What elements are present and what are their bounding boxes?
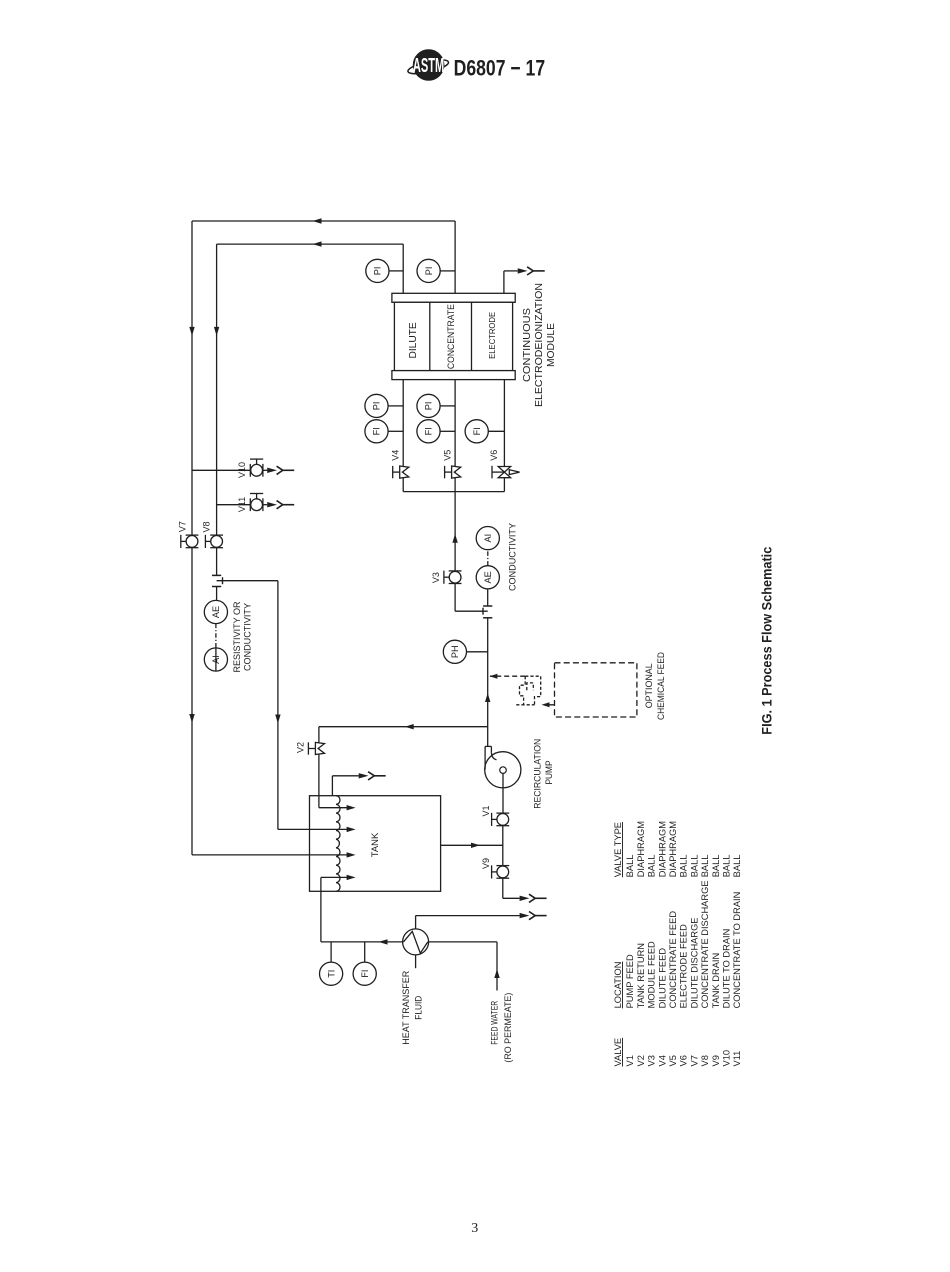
svg-text:PUMP FEED: PUMP FEED <box>625 954 635 1008</box>
svg-text:FI: FI <box>360 970 370 978</box>
svg-text:VALVE TYPE: VALVE TYPE <box>613 822 623 877</box>
flow arrow up riser <box>485 693 490 702</box>
svg-text:AE: AE <box>211 606 221 618</box>
wire heat transfer fluid inlet <box>415 955 417 968</box>
wire module feed elbow to riser <box>455 610 488 612</box>
svg-text:V1: V1 <box>625 1055 635 1066</box>
svg-text:DILUTE: DILUTE <box>408 322 419 358</box>
svg-text:V2: V2 <box>636 1055 646 1066</box>
svg-text:V11: V11 <box>237 497 247 512</box>
drain symbol after V10 <box>267 468 277 473</box>
flow arrow up module feed <box>452 534 457 543</box>
wire heated loop into tank with spray arrow <box>321 876 348 878</box>
valve V6 (ball with flow indicator) <box>492 466 520 479</box>
svg-text:BALL: BALL <box>679 855 689 878</box>
module bottom header bar <box>392 371 515 380</box>
svg-text:V3: V3 <box>431 572 441 583</box>
tank overflow to drain <box>331 776 333 796</box>
svg-text:CONCENTRATE FEED: CONCENTRATE FEED <box>668 911 678 1009</box>
instrument PI dilute bottom <box>388 405 403 407</box>
svg-text:FI: FI <box>372 427 382 435</box>
valve V1 (ball) <box>492 813 510 826</box>
svg-text:V7: V7 <box>178 521 188 532</box>
instrument PI dilute top <box>389 270 403 272</box>
wire concentrate bottom pipe <box>454 380 456 612</box>
flow arrow on V2 return <box>405 724 414 729</box>
wire branch return into tank with spray arrow <box>278 828 348 830</box>
flow arrow on inner return <box>313 241 322 246</box>
svg-text:ELECTRODE FEED: ELECTRODE FEED <box>679 924 689 1008</box>
svg-text:BALL: BALL <box>625 855 635 878</box>
svg-text:MODULE FEED: MODULE FEED <box>647 941 657 1008</box>
svg-text:PUMP: PUMP <box>544 761 554 785</box>
wire dilute return (inner) horizontal <box>217 243 404 245</box>
svg-text:V6: V6 <box>489 450 499 461</box>
valve V8 (ball) <box>205 535 223 548</box>
valve V7 (ball) <box>181 535 199 548</box>
svg-text:V3: V3 <box>647 1055 657 1066</box>
valve V3 (ball) <box>444 571 462 584</box>
instrument AI (resistivity, shared display) <box>204 648 227 671</box>
metering pump stepped outline (dashed) <box>516 676 541 705</box>
wire dilute bottom pipe <box>402 380 404 492</box>
wire V2 return branch <box>319 726 488 728</box>
svg-text:BALL: BALL <box>711 855 721 878</box>
svg-text:AI: AI <box>483 534 493 543</box>
svg-text:ELECTRODE: ELECTRODE <box>487 312 497 359</box>
svg-text:ELECTRODEIONIZATION: ELECTRODEIONIZATION <box>534 283 545 407</box>
wire electrode top pipe to drain <box>503 271 505 293</box>
wire electrode bottom pipe <box>503 380 505 492</box>
heat exchanger <box>403 929 429 955</box>
svg-text:DILUTE DISCHARGE: DILUTE DISCHARGE <box>689 917 699 1008</box>
svg-text:PI: PI <box>424 267 434 276</box>
svg-text:V9: V9 <box>711 1055 721 1066</box>
wire tank bottom to heat exchange line <box>320 891 322 942</box>
svg-text:V2: V2 <box>296 742 306 753</box>
wire V11 branch <box>217 504 251 506</box>
module body with three compartments <box>394 302 512 370</box>
svg-text:DIAPHRAGM: DIAPHRAGM <box>657 821 667 877</box>
wire feed water riser <box>496 942 498 991</box>
svg-text:V8: V8 <box>700 1055 710 1066</box>
svg-text:CONCENTRATE TO DRAIN: CONCENTRATE TO DRAIN <box>732 892 742 1009</box>
svg-text:TI: TI <box>326 970 336 978</box>
svg-text:(RO PERMEATE): (RO PERMEATE) <box>503 993 513 1063</box>
instrument PI concentrate top <box>440 270 455 272</box>
svg-text:RESISTIVITY OR: RESISTIVITY OR <box>232 601 242 672</box>
sample connection flanges on V8 line <box>212 574 221 576</box>
tank body <box>310 796 441 892</box>
signal dash-dot AE to AI <box>215 624 217 648</box>
svg-text:AI: AI <box>211 655 221 664</box>
instrument FI concentrate <box>440 430 455 432</box>
svg-text:CONCENTRATE: CONCENTRATE <box>446 304 456 369</box>
wire concentrate return (outer) horizontal <box>192 220 455 222</box>
svg-text:DILUTE TO DRAIN: DILUTE TO DRAIN <box>722 929 732 1009</box>
flow arrow feed water <box>494 969 499 978</box>
svg-text:FI: FI <box>472 427 482 435</box>
wire tank outlet <box>441 844 503 846</box>
ASTM logo (globe with orbit) <box>407 50 450 80</box>
svg-text:D6807 − 17: D6807 − 17 <box>454 57 545 81</box>
wire V10 branch <box>192 469 251 471</box>
flow arrow down on branch <box>275 715 280 724</box>
wire pump suction between valves <box>502 826 504 866</box>
svg-text:V4: V4 <box>391 450 401 461</box>
svg-text:3: 3 <box>471 1221 478 1236</box>
module top header bar <box>392 293 515 302</box>
svg-text:V1: V1 <box>481 805 491 816</box>
svg-text:PI: PI <box>372 402 382 411</box>
svg-text:TANK: TANK <box>370 832 380 857</box>
svg-text:CHEMICAL FEED: CHEMICAL FEED <box>656 652 666 720</box>
wire AE stub <box>216 587 218 601</box>
instrument AI (conductivity) <box>476 527 499 550</box>
svg-text:BALL: BALL <box>647 855 657 878</box>
svg-text:BALL: BALL <box>732 855 742 878</box>
wire V9 to drain <box>502 878 504 898</box>
svg-text:V5: V5 <box>442 450 452 461</box>
svg-text:LOCATION: LOCATION <box>613 962 623 1009</box>
svg-text:CONDUCTIVITY: CONDUCTIVITY <box>242 603 252 671</box>
valve V5 (diaphragm) <box>445 466 461 478</box>
svg-text:MODULE: MODULE <box>546 323 557 367</box>
instrument AE (resistivity) <box>204 600 227 623</box>
valve V10 (ball) <box>250 459 263 477</box>
valve V9 (ball) <box>492 865 510 878</box>
tank internal coil (wavy) <box>336 796 340 892</box>
svg-text:BALL: BALL <box>700 855 710 878</box>
wire branch vertical down to tank <box>277 581 279 830</box>
valve V2 (diaphragm) <box>308 742 324 754</box>
flow arrow down on V7 line (lower) <box>189 714 194 723</box>
wire outer return into tank with spray arrow <box>192 854 348 856</box>
wire outer return vertical to tank <box>191 221 193 855</box>
svg-text:CONDUCTIVITY: CONDUCTIVITY <box>507 523 517 591</box>
flow arrow on outer return <box>313 218 322 223</box>
svg-text:V7: V7 <box>689 1055 699 1066</box>
valve table <box>613 821 742 1067</box>
wire inner return vertical to sample point <box>216 244 218 575</box>
svg-text:V5: V5 <box>668 1055 678 1066</box>
valve V4 (diaphragm) <box>393 466 409 478</box>
drain symbol tank drain <box>520 896 530 901</box>
svg-text:DILUTE FEED: DILUTE FEED <box>657 948 667 1009</box>
wire main riser <box>487 618 489 747</box>
svg-text:DIAPHRAGM: DIAPHRAGM <box>636 821 646 877</box>
instrument FI dilute <box>388 430 403 432</box>
svg-text:PI: PI <box>424 402 434 411</box>
svg-text:CONCENTRATE DISCHARGE: CONCENTRATE DISCHARGE <box>700 880 710 1008</box>
flow arrow tank outlet <box>471 843 480 848</box>
signal dash-dot AE to AI conductivity <box>487 550 489 566</box>
instrument TI <box>330 942 332 962</box>
header title D6807 - 17 <box>454 57 545 81</box>
svg-text:AE: AE <box>483 571 493 583</box>
svg-text:OPTIONAL: OPTIONAL <box>644 663 654 708</box>
svg-text:VALVE: VALVE <box>613 1038 623 1067</box>
svg-text:HEAT TRANSFER: HEAT TRANSFER <box>401 970 411 1044</box>
flow arrow toward tank on HX line <box>379 939 388 944</box>
wire AE stub conductivity <box>487 589 489 606</box>
instrument PI concentrate bottom <box>440 405 455 407</box>
svg-text:PH: PH <box>450 645 460 658</box>
optional chemical feed dashed injection line <box>490 675 525 677</box>
drain symbol electrode discharge <box>518 268 528 273</box>
svg-text:V11: V11 <box>732 1051 742 1067</box>
wire heat exchange horizontal line <box>321 941 403 943</box>
dashed line box to metering pump <box>546 704 555 706</box>
instrument AE (conductivity) <box>476 566 499 589</box>
recirculation pump <box>485 746 521 813</box>
svg-text:TANK DRAIN: TANK DRAIN <box>711 953 721 1009</box>
instrument FI feed <box>364 942 366 962</box>
svg-text:V6: V6 <box>679 1055 689 1066</box>
wire feed header joining V4 V5 V6 <box>403 491 504 493</box>
svg-text:TANK RETURN: TANK RETURN <box>636 943 646 1008</box>
svg-text:PI: PI <box>373 267 383 276</box>
drain symbol HX vent <box>520 913 530 918</box>
drain symbol after V11 <box>267 502 277 507</box>
svg-text:FEED WATER: FEED WATER <box>489 1000 499 1044</box>
svg-text:CONTINUOUS: CONTINUOUS <box>522 308 533 382</box>
wire HX vent to drain <box>415 916 417 929</box>
optional chemical feed dashed box <box>555 663 637 717</box>
svg-text:V9: V9 <box>481 858 491 869</box>
wire concentrate top pipe <box>454 221 456 293</box>
svg-text:ASTM: ASTM <box>413 55 444 77</box>
instrument FI electrode <box>488 430 504 432</box>
svg-text:V10: V10 <box>237 462 247 478</box>
wire branch from sample point to tank line <box>217 580 278 582</box>
svg-text:V4: V4 <box>657 1055 667 1066</box>
wire V2 vertical <box>318 727 320 808</box>
svg-text:BALL: BALL <box>689 855 699 878</box>
svg-text:V8: V8 <box>202 521 212 532</box>
svg-text:FI: FI <box>424 427 434 435</box>
sample connection flanges on riser <box>483 605 492 607</box>
svg-text:V10: V10 <box>722 1050 732 1067</box>
svg-text:DIAPHRAGM: DIAPHRAGM <box>668 821 678 877</box>
svg-text:FIG. 1 Process Flow Schematic: FIG. 1 Process Flow Schematic <box>760 547 776 735</box>
instrument PH <box>466 651 487 653</box>
wire dilute top pipe <box>402 244 404 293</box>
wire V2 line into tank with spray arrow <box>319 807 348 809</box>
flow arrow down on V7 line <box>189 327 194 336</box>
svg-text:FLUID: FLUID <box>413 995 423 1019</box>
svg-text:BALL: BALL <box>722 855 732 878</box>
valve V11 (ball) <box>250 494 263 512</box>
svg-text:RECIRCULATION: RECIRCULATION <box>532 739 542 809</box>
flow arrow down on V8 line <box>214 327 219 336</box>
